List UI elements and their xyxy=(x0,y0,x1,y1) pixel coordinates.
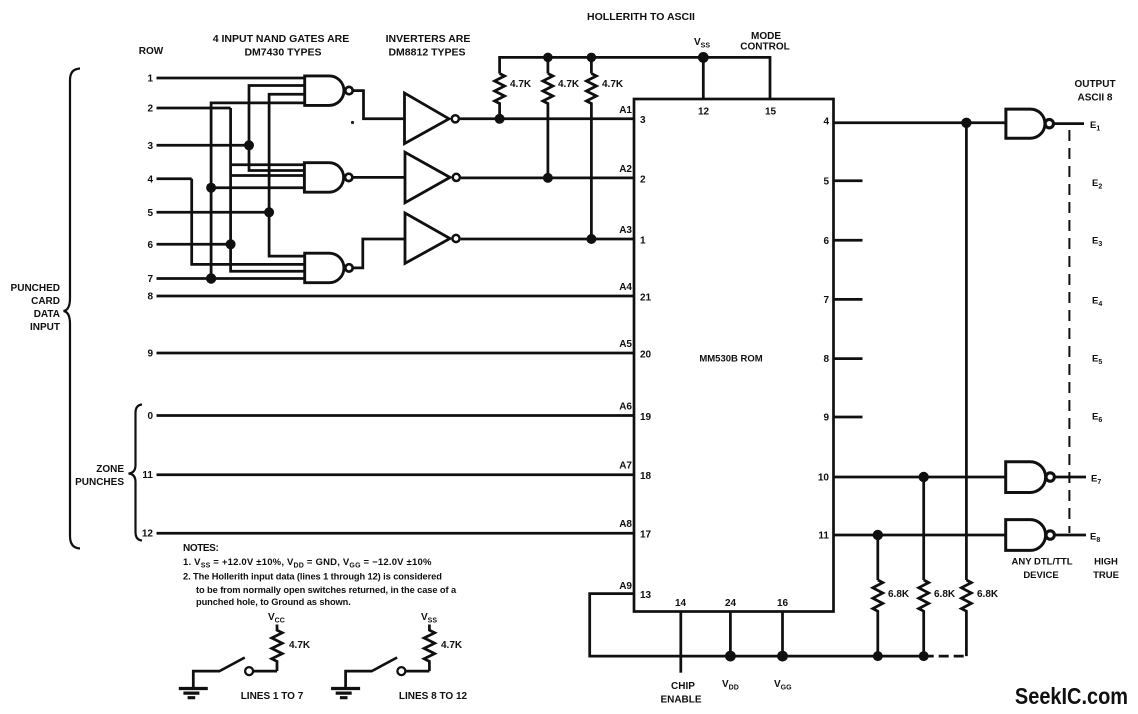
nand gate G4 output E1 xyxy=(1006,109,1045,138)
svg-text:24: 24 xyxy=(725,598,737,609)
svg-text:7: 7 xyxy=(823,295,829,306)
wire G1 output to inverter U1 xyxy=(353,91,404,119)
wire row 2 xyxy=(157,107,231,110)
svg-text:SeekIC.com: SeekIC.com xyxy=(1015,684,1128,710)
wire ROM pin 16 to VGG xyxy=(781,612,784,657)
svg-text:CARD: CARD xyxy=(31,296,60,307)
wire row 8 to ROM pin A4 xyxy=(157,295,635,298)
svg-text:4.7K: 4.7K xyxy=(441,640,463,651)
resistor R5 6.8K xyxy=(919,580,929,656)
svg-text:ANY DTL/TTL: ANY DTL/TTL xyxy=(1011,557,1072,568)
junction pin4 line / right vertical xyxy=(961,118,971,128)
junction row 5 / v5 xyxy=(264,207,274,217)
wire row 0 to ROM pin A6 xyxy=(157,414,635,417)
wire row 9 to ROM pin A5 xyxy=(157,352,635,355)
wire row 12 to ROM pin A8 xyxy=(157,532,635,535)
svg-text:4: 4 xyxy=(147,174,153,185)
ground switch 1 xyxy=(179,689,208,698)
svg-text:4.7K: 4.7K xyxy=(558,79,580,90)
wire row 4 xyxy=(157,177,192,180)
svg-text:ASCII 8: ASCII 8 xyxy=(1077,93,1112,104)
svg-text:6.8K: 6.8K xyxy=(977,589,999,600)
wire switch 2 to ground xyxy=(346,671,373,687)
svg-text:A5: A5 xyxy=(619,339,632,350)
svg-text:4.7K: 4.7K xyxy=(289,640,311,651)
svg-text:9: 9 xyxy=(147,349,153,360)
junction pin10 line / vertical xyxy=(919,472,929,482)
svg-text:TRUE: TRUE xyxy=(1093,570,1119,581)
wire v3 branch NAND2 input 1 xyxy=(231,163,305,166)
wire ROM pin 9 stub xyxy=(834,416,863,419)
wire ROM pin A9 loop to bottom bus xyxy=(590,594,924,657)
svg-text:18: 18 xyxy=(640,471,652,482)
svg-text:A8: A8 xyxy=(619,519,632,530)
svg-text:OUTPUT: OUTPUT xyxy=(1074,79,1115,90)
ground switch 2 xyxy=(331,689,360,698)
svg-text:ENABLE: ENABLE xyxy=(660,695,701,706)
switch S2 contact xyxy=(397,667,405,675)
brace zone punches xyxy=(129,405,143,541)
svg-text:1: 1 xyxy=(640,236,646,247)
wire vertical v5 NAND1 input 3 to NAND3 input 1 xyxy=(269,94,305,256)
svg-text:6: 6 xyxy=(147,240,153,251)
svg-text:INVERTERS ARE: INVERTERS ARE xyxy=(386,33,471,45)
resistor R8 4.7K xyxy=(424,625,435,672)
wire ROM pin 6 stub xyxy=(834,239,863,242)
junction R2 bottom / A2 wire xyxy=(543,173,553,183)
junction R4 / bus xyxy=(873,651,883,661)
svg-text:12: 12 xyxy=(142,529,154,540)
wire vertical v1 from row 4 to NAND3 xyxy=(192,179,305,265)
svg-text:INPUT: INPUT xyxy=(30,322,60,333)
svg-text:CONTROL: CONTROL xyxy=(740,42,789,53)
scan speck artifact xyxy=(351,121,354,124)
wire row 6 xyxy=(157,243,231,246)
svg-text:2. The Hollerith input data (: 2. The Hollerith input data (lines 1 thr… xyxy=(183,572,442,582)
switch S2 arm xyxy=(372,658,397,672)
svg-text:9: 9 xyxy=(823,413,829,424)
svg-text:14: 14 xyxy=(675,598,687,609)
svg-text:6.8K: 6.8K xyxy=(888,589,910,600)
svg-text:3: 3 xyxy=(640,115,646,126)
junction R3 top rail xyxy=(587,53,597,63)
svg-text:4: 4 xyxy=(823,117,829,128)
svg-text:5: 5 xyxy=(147,208,153,219)
junction R5 / bus xyxy=(919,651,929,661)
switch S1 arm xyxy=(220,658,245,672)
svg-text:11: 11 xyxy=(142,470,153,481)
junction v2 / NAND2 input xyxy=(206,183,216,193)
nand gate G2 DM7430 xyxy=(304,163,343,193)
svg-text:17: 17 xyxy=(640,530,652,541)
wire vertical v2 to NAND1 input 4 xyxy=(211,103,305,279)
wire ROM pin 24 to VDD xyxy=(729,612,732,657)
wire ROM pin 11 to output gate G6 xyxy=(834,534,1006,537)
wire vertical from pin10 junction down xyxy=(922,477,925,580)
svg-text:7: 7 xyxy=(147,274,153,285)
svg-text:2: 2 xyxy=(640,175,646,186)
svg-text:19: 19 xyxy=(640,412,652,423)
wire row 5 xyxy=(157,211,270,214)
nand gate G1 DM7430 xyxy=(305,76,344,106)
svg-text:20: 20 xyxy=(640,350,652,361)
switch S1 contact xyxy=(245,667,253,675)
svg-text:HOLLERITH TO ASCII: HOLLERITH TO ASCII xyxy=(587,11,695,23)
svg-text:ROW: ROW xyxy=(139,46,164,57)
svg-text:4.7K: 4.7K xyxy=(510,79,532,90)
resistor R6 6.8K xyxy=(961,580,971,656)
IC U7 MM5308 ROM body xyxy=(634,99,834,612)
svg-text:A3: A3 xyxy=(619,225,632,236)
resistor R1 4.7K xyxy=(495,74,505,119)
svg-text:A1: A1 xyxy=(619,105,632,116)
junction pin11 line / vertical xyxy=(873,530,883,540)
svg-text:21: 21 xyxy=(640,293,652,304)
svg-text:A2: A2 xyxy=(619,164,632,175)
nand gate G3 DM7430 xyxy=(305,253,344,283)
wire VSS to ROM pin 12 xyxy=(702,57,705,99)
wire G5 output to E7 xyxy=(1055,476,1086,479)
wire v3 branch NAND2 input 3 xyxy=(231,174,305,177)
svg-text:6: 6 xyxy=(823,236,829,247)
inverter U2 DM8812 xyxy=(405,152,450,202)
svg-text:6.8K: 6.8K xyxy=(934,589,956,600)
svg-text:11: 11 xyxy=(818,531,829,542)
inverter U3 DM8812 xyxy=(405,213,450,263)
wire G4 output to E1 xyxy=(1054,122,1084,125)
svg-text:DM8812 TYPES: DM8812 TYPES xyxy=(388,47,465,59)
svg-text:PUNCHES: PUNCHES xyxy=(75,477,124,488)
wire G2 output to inverter U2 xyxy=(353,176,405,179)
wire ROM pin 4 to output gate G4 xyxy=(834,121,1006,124)
resistor R2 4.7K xyxy=(543,74,553,178)
wire v2 branch to NAND2 input 4 xyxy=(211,186,304,189)
svg-text:2: 2 xyxy=(147,104,153,115)
wire top rail VSS xyxy=(500,57,770,99)
wire inverter U1 output to ROM pin A1 xyxy=(460,117,634,120)
svg-text:MODE: MODE xyxy=(751,31,781,42)
wire vertical from pin4 junction down xyxy=(965,123,968,580)
svg-text:PUNCHED: PUNCHED xyxy=(11,283,60,294)
svg-text:A7: A7 xyxy=(619,461,632,472)
svg-text:5: 5 xyxy=(823,176,829,187)
svg-text:LINES 1 TO 7: LINES 1 TO 7 xyxy=(241,691,304,702)
resistor R7 4.7K xyxy=(272,625,283,672)
wire inverter U2 output to ROM pin A2 xyxy=(461,177,634,180)
wire vertical from pin11 junction down xyxy=(876,535,879,580)
junction VDD / bus xyxy=(725,651,736,662)
wire ROM pin 7 stub xyxy=(834,298,863,301)
wire vertical v3 from row 2 xyxy=(231,108,305,271)
junction VGG / bus xyxy=(777,651,788,662)
wire vertical v4 NAND1 input 2 to NAND2 input 2 xyxy=(249,86,305,171)
svg-text:DATA: DATA xyxy=(34,309,60,320)
junction row 7 / v2 xyxy=(206,273,216,283)
wire switch 2 output xyxy=(406,670,429,673)
svg-text:13: 13 xyxy=(640,590,652,601)
dashed bus line xyxy=(1068,130,1070,533)
svg-text:CHIP: CHIP xyxy=(671,681,695,692)
nand gate G6 output E8 xyxy=(1006,520,1046,551)
svg-text:A4: A4 xyxy=(619,282,632,293)
junction R2 top rail xyxy=(543,53,553,63)
wire inverter U3 output to ROM pin A3 xyxy=(461,238,634,241)
junction row 3 / v4 xyxy=(244,140,254,150)
svg-text:3: 3 xyxy=(147,141,153,152)
svg-text:ZONE: ZONE xyxy=(96,464,124,475)
svg-text:4 INPUT NAND GATES ARE: 4 INPUT NAND GATES ARE xyxy=(213,33,350,45)
wire dashed bus bottom segment xyxy=(924,655,967,658)
svg-text:15: 15 xyxy=(765,107,777,118)
nand gate G5 output E7 xyxy=(1006,462,1046,493)
wire ROM pin 10 to output gate G5 xyxy=(834,476,1006,479)
inverter U1 DM8812 xyxy=(405,93,450,144)
wire ROM pin 8 stub xyxy=(834,357,863,360)
svg-text:8: 8 xyxy=(147,292,153,303)
resistor R3 4.7K xyxy=(586,74,596,240)
wire switch 1 output xyxy=(254,670,277,673)
svg-text:NOTES:: NOTES: xyxy=(183,543,218,554)
svg-text:DM7430 TYPES: DM7430 TYPES xyxy=(244,47,321,59)
junction row 6 / v3 xyxy=(226,239,236,249)
wire G3 output to inverter U3 xyxy=(353,239,405,268)
svg-text:A6: A6 xyxy=(619,402,632,413)
svg-text:10: 10 xyxy=(818,473,830,484)
brace punched card data input xyxy=(64,69,81,549)
svg-text:8: 8 xyxy=(823,354,829,365)
wire row 3 xyxy=(157,144,250,147)
svg-text:LINES 8 TO 12: LINES 8 TO 12 xyxy=(399,691,468,702)
svg-text:MM530B ROM: MM530B ROM xyxy=(699,354,762,365)
svg-text:1. VSS = +12.0V ±10%, VDD = G: 1. VSS = +12.0V ±10%, VDD = GND, VGG = −… xyxy=(183,557,432,570)
wire switch 1 to ground xyxy=(193,671,220,687)
svg-text:A9: A9 xyxy=(619,581,632,592)
wire row 11 to ROM pin A7 xyxy=(157,473,635,476)
wire G6 output to E8 xyxy=(1055,534,1086,537)
svg-text:to be from normally open switc: to be from normally open switches return… xyxy=(196,585,457,595)
resistor R4 6.8K xyxy=(873,580,883,656)
wire ROM pin 5 stub xyxy=(834,179,863,182)
svg-text:12: 12 xyxy=(698,107,710,118)
svg-text:punched hole, to Ground as sho: punched hole, to Ground as shown. xyxy=(196,597,351,607)
svg-text:4.7K: 4.7K xyxy=(602,79,624,90)
svg-text:0: 0 xyxy=(147,411,153,422)
wire ROM pin 14 chip enable xyxy=(679,612,682,673)
junction R3 bottom / A3 wire xyxy=(586,234,596,244)
svg-text:HIGH: HIGH xyxy=(1094,557,1118,568)
svg-text:DEVICE: DEVICE xyxy=(1023,570,1058,581)
wire row 1 xyxy=(157,77,305,80)
svg-text:1: 1 xyxy=(147,74,153,85)
junction R1 bottom / A1 wire xyxy=(495,114,505,124)
svg-text:16: 16 xyxy=(777,598,789,609)
wire row 7 xyxy=(157,277,305,280)
